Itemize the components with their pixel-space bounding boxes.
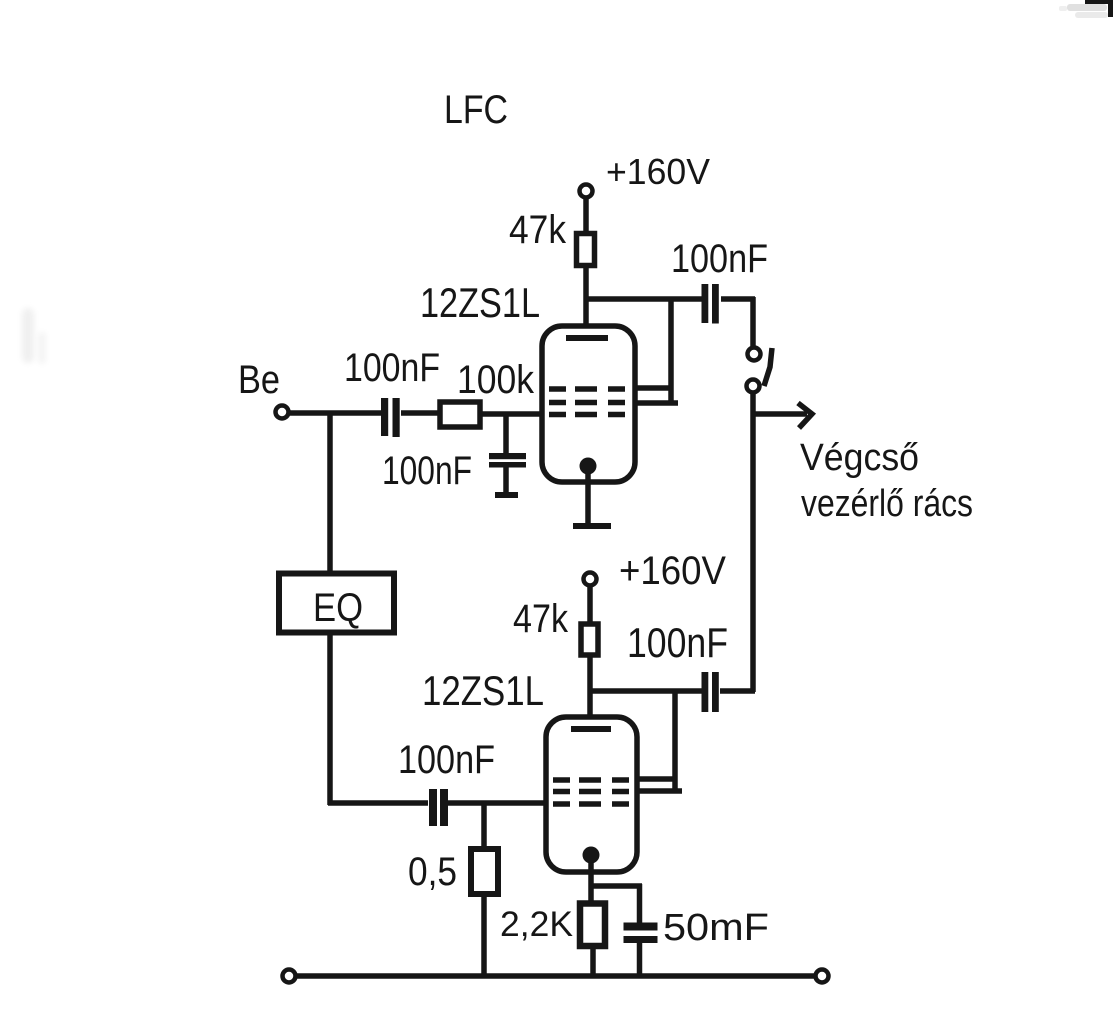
wire R3 to rail	[481, 894, 487, 977]
svg-text:100nF: 100nF	[382, 449, 472, 493]
svg-text:12ZS1L: 12ZS1L	[420, 279, 540, 326]
svg-text:Végcső: Végcső	[800, 437, 919, 479]
svg-text:100k: 100k	[457, 358, 535, 402]
capacitor C1 100nF (top coupling)	[702, 284, 719, 324]
tube V2 grid dashes	[553, 780, 629, 804]
wire C4 to grid V2	[448, 800, 546, 806]
wire C2 to R2	[401, 410, 440, 416]
wire EQ down	[327, 635, 333, 805]
wire supply to R4	[587, 586, 593, 624]
tube V2 anode bar	[571, 726, 611, 732]
wire to capacitor C6	[637, 884, 643, 923]
svg-text:2,2K: 2,2K	[500, 905, 573, 944]
tube V1 grid dashes	[549, 389, 625, 415]
EQ block	[279, 574, 394, 633]
svg-text:100nF: 100nF	[671, 237, 768, 281]
tube V2 cathode dot	[583, 847, 600, 864]
wire cathode V1 to ground	[585, 470, 591, 524]
wire R5 to rail	[590, 947, 596, 977]
wire plate node horizontal (bottom)	[588, 688, 703, 694]
tube V1 screen connection to plate node	[635, 299, 678, 403]
tube V1 cathode dot	[580, 458, 597, 475]
wire C6 to rail	[637, 943, 643, 977]
scan artifact noise top-right	[1059, 4, 1108, 18]
tube V2 screen connection to plate node	[637, 691, 682, 791]
svg-text:+160V: +160V	[619, 549, 726, 593]
wire C3 to ground	[503, 467, 509, 493]
capacitor C6 50mF	[624, 923, 658, 944]
wire junction down to C3	[503, 414, 509, 454]
wire switch down right bus	[750, 392, 756, 692]
svg-text:100nF: 100nF	[344, 346, 440, 390]
rail terminal left	[283, 970, 296, 983]
wire C1 to switch	[721, 297, 755, 346]
svg-text:0,5: 0,5	[408, 850, 457, 894]
capacitor C2 100nF (input)	[381, 398, 400, 437]
supply terminal +160V (top)	[580, 185, 593, 198]
scan artifact top-right corner	[1085, 0, 1113, 17]
resistor R5 2,2K	[580, 904, 605, 947]
wire input	[289, 410, 384, 416]
tube V1 12ZS1L envelope	[542, 326, 635, 482]
wire cathode node to 50mF	[589, 883, 642, 889]
wire cathode V2 down	[588, 860, 594, 903]
rail terminal right	[816, 970, 829, 983]
wire plate node horizontal (top)	[584, 296, 703, 302]
arrow output	[755, 403, 812, 428]
svg-text:47k: 47k	[513, 597, 569, 641]
tube V2 12ZS1L envelope	[546, 717, 637, 872]
capacitor C5 100nF (bottom coupling)	[702, 672, 719, 712]
wire supply to R1	[583, 198, 589, 235]
resistor R1 47k (top)	[577, 234, 595, 266]
resistor R2 100k	[440, 402, 480, 427]
svg-text:100nF: 100nF	[627, 619, 728, 666]
svg-text:LFC: LFC	[444, 88, 508, 132]
capacitor C3 100nF (grid to ground)	[489, 453, 526, 468]
input terminal Be	[276, 406, 289, 419]
scan artifact smudge left edge	[22, 308, 46, 364]
ground (V1 cathode)	[573, 523, 611, 529]
svg-text:50mF: 50mF	[663, 907, 769, 949]
ground (C3)	[495, 492, 518, 498]
resistor R3 0,5	[471, 849, 498, 894]
wire R1 to plate node	[583, 266, 589, 340]
tube V1 anode bar	[566, 335, 608, 341]
svg-text:vezérlő rács: vezérlő rács	[801, 483, 973, 525]
wire R4 to plate node (bottom)	[587, 655, 593, 732]
switch S1	[747, 348, 773, 393]
wire EQ to C4	[328, 800, 428, 806]
svg-text:+160V: +160V	[606, 151, 710, 192]
resistor R4 47k (bottom)	[581, 624, 598, 655]
supply terminal +160V (bottom)	[584, 573, 597, 586]
svg-text:47k: 47k	[509, 208, 567, 252]
svg-text:12ZS1L: 12ZS1L	[422, 667, 544, 714]
wire R2 to grid V1	[480, 411, 542, 417]
svg-text:EQ: EQ	[313, 586, 363, 630]
svg-text:Be: Be	[238, 358, 280, 402]
capacitor C4 100nF (EQ coupling)	[429, 789, 448, 826]
ground rail	[296, 973, 816, 979]
wire C5 to right bus	[720, 688, 755, 694]
svg-text:100nF: 100nF	[398, 738, 495, 782]
wire junction down to R3	[481, 803, 487, 849]
wire input node down to EQ	[327, 411, 333, 572]
